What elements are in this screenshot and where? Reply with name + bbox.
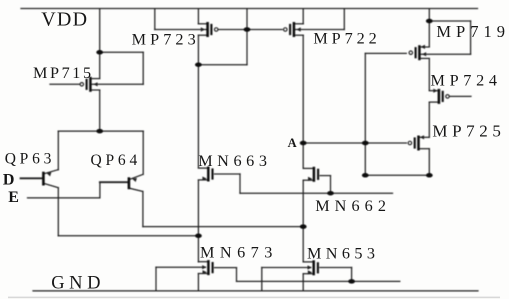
svg-text:D: D	[3, 172, 15, 189]
svg-text:MP724: MP724	[431, 72, 502, 90]
svg-text:MP725: MP725	[432, 121, 505, 140]
svg-text:QP63: QP63	[5, 150, 56, 167]
svg-text:MP722: MP722	[313, 30, 380, 48]
svg-text:MP723: MP723	[132, 31, 200, 49]
svg-text:E: E	[8, 189, 19, 206]
svg-text:MN663: MN663	[198, 152, 271, 170]
svg-text:MN662: MN662	[315, 197, 391, 215]
svg-text:MN673: MN673	[200, 244, 278, 262]
svg-text:MN653: MN653	[307, 244, 379, 262]
svg-text:QP64: QP64	[91, 152, 142, 169]
svg-text:GND: GND	[51, 273, 105, 293]
svg-text:A: A	[288, 136, 297, 150]
svg-text:VDD: VDD	[41, 8, 88, 30]
svg-text:MP719: MP719	[436, 22, 509, 41]
svg-text:MP715: MP715	[33, 64, 94, 82]
